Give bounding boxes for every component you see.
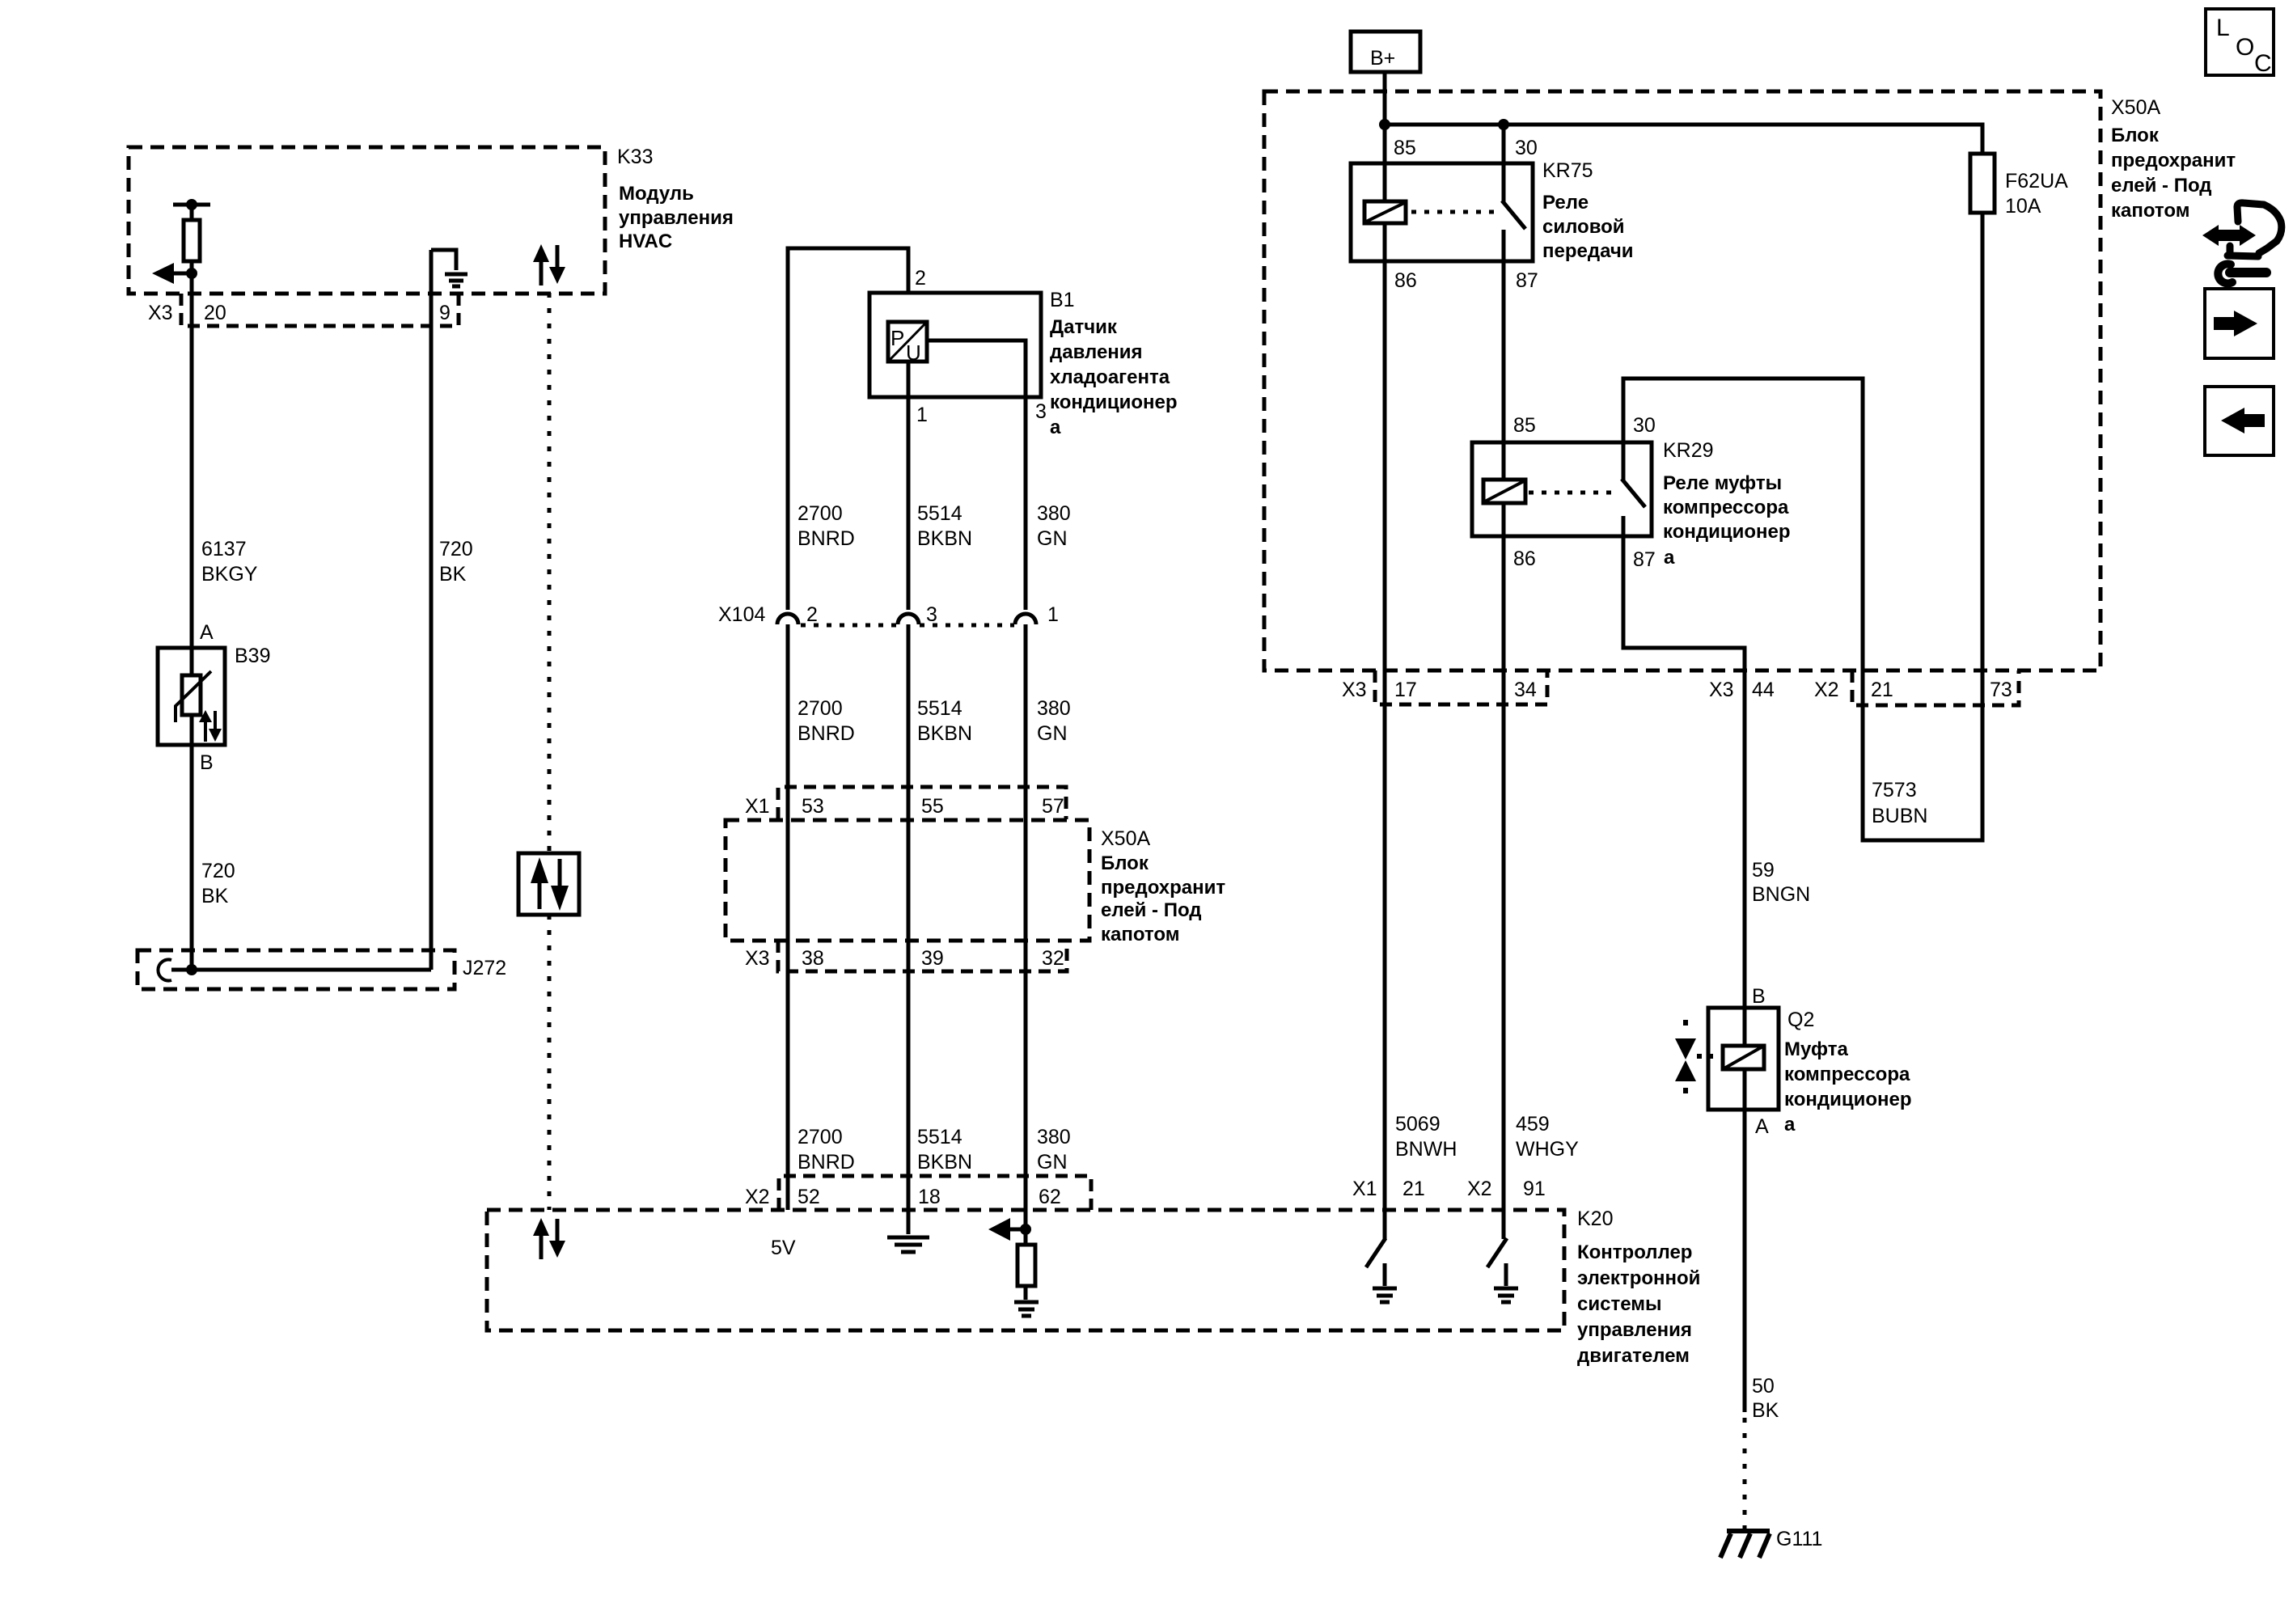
svg-text:55: 55 [921, 795, 944, 818]
svg-text:59: 59 [1752, 859, 1775, 882]
svg-text:5069: 5069 [1395, 1113, 1441, 1136]
svg-text:5514: 5514 [917, 502, 962, 525]
svg-text:кондиционер: кондиционер [1784, 1089, 1912, 1110]
svg-text:F62UA: F62UA [2005, 170, 2068, 192]
svg-text:85: 85 [1394, 137, 1416, 159]
svg-text:X104: X104 [718, 603, 765, 626]
svg-text:21: 21 [1871, 679, 1893, 701]
svg-text:HVAC: HVAC [619, 230, 672, 252]
svg-text:5514: 5514 [917, 1126, 962, 1148]
svg-text:87: 87 [1633, 548, 1656, 571]
svg-text:компрессора: компрессора [1663, 497, 1789, 518]
svg-text:управления: управления [619, 207, 734, 229]
svg-text:BNRD: BNRD [797, 1151, 855, 1174]
svg-text:елей - Под: елей - Под [2111, 175, 2212, 197]
svg-text:BK: BK [201, 885, 229, 907]
svg-text:Модуль: Модуль [619, 183, 694, 205]
svg-text:380: 380 [1037, 502, 1071, 525]
svg-text:X3: X3 [1709, 679, 1734, 701]
svg-text:GN: GN [1037, 527, 1068, 550]
svg-text:Контроллер: Контроллер [1577, 1241, 1692, 1263]
svg-text:B: B [1752, 985, 1766, 1008]
svg-text:1: 1 [916, 404, 928, 426]
svg-text:X3: X3 [745, 947, 770, 970]
svg-text:3: 3 [1035, 400, 1047, 423]
svg-text:хладоагента: хладоагента [1050, 366, 1170, 388]
svg-text:G111: G111 [1776, 1528, 1822, 1550]
svg-text:10A: 10A [2005, 195, 2041, 218]
svg-text:передачи: передачи [1542, 240, 1634, 262]
svg-text:B1: B1 [1050, 289, 1075, 311]
svg-text:X50A: X50A [1101, 827, 1150, 850]
svg-text:K20: K20 [1577, 1207, 1613, 1230]
svg-text:L: L [2216, 15, 2230, 41]
svg-text:2: 2 [806, 603, 818, 626]
svg-text:X3: X3 [148, 302, 173, 324]
svg-text:2700: 2700 [797, 502, 843, 525]
svg-text:K33: K33 [617, 146, 653, 168]
svg-text:A: A [200, 621, 214, 644]
svg-text:BNRD: BNRD [797, 722, 855, 745]
svg-text:GN: GN [1037, 722, 1068, 745]
svg-text:2: 2 [915, 267, 926, 290]
svg-text:21: 21 [1402, 1178, 1425, 1200]
svg-text:BNRD: BNRD [797, 527, 855, 550]
svg-text:WHGY: WHGY [1516, 1138, 1579, 1161]
svg-text:32: 32 [1042, 947, 1064, 970]
svg-text:X2: X2 [1814, 679, 1839, 701]
svg-text:7573: 7573 [1872, 779, 1917, 801]
svg-text:62: 62 [1039, 1186, 1061, 1208]
svg-text:Реле: Реле [1542, 192, 1589, 214]
svg-text:5V: 5V [771, 1237, 796, 1259]
svg-text:B+: B+ [1370, 47, 1395, 70]
svg-text:X1: X1 [745, 795, 770, 818]
svg-text:предохранит: предохранит [2111, 150, 2236, 171]
svg-text:9: 9 [439, 302, 451, 324]
svg-text:1: 1 [1047, 603, 1059, 626]
svg-text:X2: X2 [745, 1186, 770, 1208]
svg-text:91: 91 [1523, 1178, 1546, 1200]
svg-text:Блок: Блок [1101, 852, 1149, 874]
svg-text:BKGY: BKGY [201, 563, 258, 586]
svg-text:18: 18 [918, 1186, 941, 1208]
svg-text:53: 53 [802, 795, 824, 818]
svg-text:30: 30 [1633, 414, 1656, 437]
svg-text:BNGN: BNGN [1752, 883, 1810, 906]
svg-text:BUBN: BUBN [1872, 805, 1927, 827]
svg-text:50: 50 [1752, 1375, 1775, 1398]
svg-text:а: а [1784, 1114, 1796, 1136]
svg-text:а: а [1664, 547, 1675, 569]
svg-text:кондиционер: кондиционер [1050, 391, 1178, 413]
svg-text:720: 720 [439, 538, 473, 560]
svg-text:KR75: KR75 [1542, 159, 1593, 182]
svg-text:38: 38 [802, 947, 824, 970]
svg-text:P: P [891, 326, 904, 350]
svg-text:2700: 2700 [797, 697, 843, 720]
svg-text:X1: X1 [1352, 1178, 1377, 1200]
svg-text:KR29: KR29 [1663, 439, 1714, 462]
svg-text:B: B [200, 751, 214, 774]
svg-text:силовой: силовой [1542, 216, 1625, 238]
svg-text:а: а [1050, 417, 1061, 438]
svg-text:A: A [1755, 1115, 1769, 1138]
svg-text:57: 57 [1042, 795, 1064, 818]
svg-text:86: 86 [1513, 548, 1536, 570]
svg-text:J272: J272 [463, 957, 506, 979]
svg-text:30: 30 [1515, 137, 1538, 159]
svg-text:O: O [2236, 34, 2254, 61]
svg-text:Муфта: Муфта [1784, 1038, 1848, 1060]
svg-text:380: 380 [1037, 1126, 1071, 1148]
svg-text:GN: GN [1037, 1151, 1068, 1174]
svg-text:B39: B39 [235, 645, 270, 667]
svg-text:BKBN: BKBN [917, 722, 972, 745]
svg-text:X50A: X50A [2111, 96, 2160, 119]
svg-text:Реле муфты: Реле муфты [1663, 472, 1782, 494]
svg-text:елей - Под: елей - Под [1101, 899, 1202, 921]
svg-text:459: 459 [1516, 1113, 1550, 1136]
svg-text:предохранит: предохранит [1101, 877, 1225, 899]
svg-text:X3: X3 [1342, 679, 1367, 701]
svg-text:34: 34 [1514, 679, 1537, 701]
svg-text:BKBN: BKBN [917, 527, 972, 550]
svg-text:720: 720 [201, 860, 235, 882]
svg-text:86: 86 [1394, 269, 1417, 292]
svg-text:электронной: электронной [1577, 1267, 1700, 1289]
svg-text:73: 73 [1990, 679, 2012, 701]
svg-text:управления: управления [1577, 1319, 1692, 1341]
svg-text:5514: 5514 [917, 697, 962, 720]
svg-text:компрессора: компрессора [1784, 1064, 1910, 1085]
svg-text:Q2: Q2 [1787, 1009, 1814, 1031]
svg-text:39: 39 [921, 947, 944, 970]
svg-text:85: 85 [1513, 414, 1536, 437]
svg-text:87: 87 [1516, 269, 1538, 292]
svg-text:давления: давления [1050, 341, 1143, 363]
svg-text:капотом: капотом [1101, 924, 1179, 945]
svg-text:20: 20 [204, 302, 226, 324]
svg-text:Блок: Блок [2111, 125, 2160, 146]
svg-text:44: 44 [1752, 679, 1775, 701]
svg-text:BK: BK [1752, 1399, 1779, 1422]
svg-text:2700: 2700 [797, 1126, 843, 1148]
svg-text:U: U [906, 340, 921, 365]
svg-text:BKBN: BKBN [917, 1151, 972, 1174]
svg-text:6137: 6137 [201, 538, 247, 560]
svg-text:380: 380 [1037, 697, 1071, 720]
svg-text:3: 3 [926, 603, 937, 626]
svg-text:X2: X2 [1467, 1178, 1492, 1200]
svg-text:C: C [2254, 50, 2272, 77]
svg-text:52: 52 [797, 1186, 820, 1208]
svg-text:17: 17 [1394, 679, 1417, 701]
svg-text:двигателем: двигателем [1577, 1345, 1690, 1367]
svg-text:BNWH: BNWH [1395, 1138, 1457, 1161]
svg-text:капотом: капотом [2111, 200, 2189, 222]
svg-text:системы: системы [1577, 1293, 1661, 1315]
svg-text:кондиционер: кондиционер [1663, 521, 1791, 543]
svg-text:BK: BK [439, 563, 467, 586]
svg-text:Датчик: Датчик [1050, 316, 1118, 338]
